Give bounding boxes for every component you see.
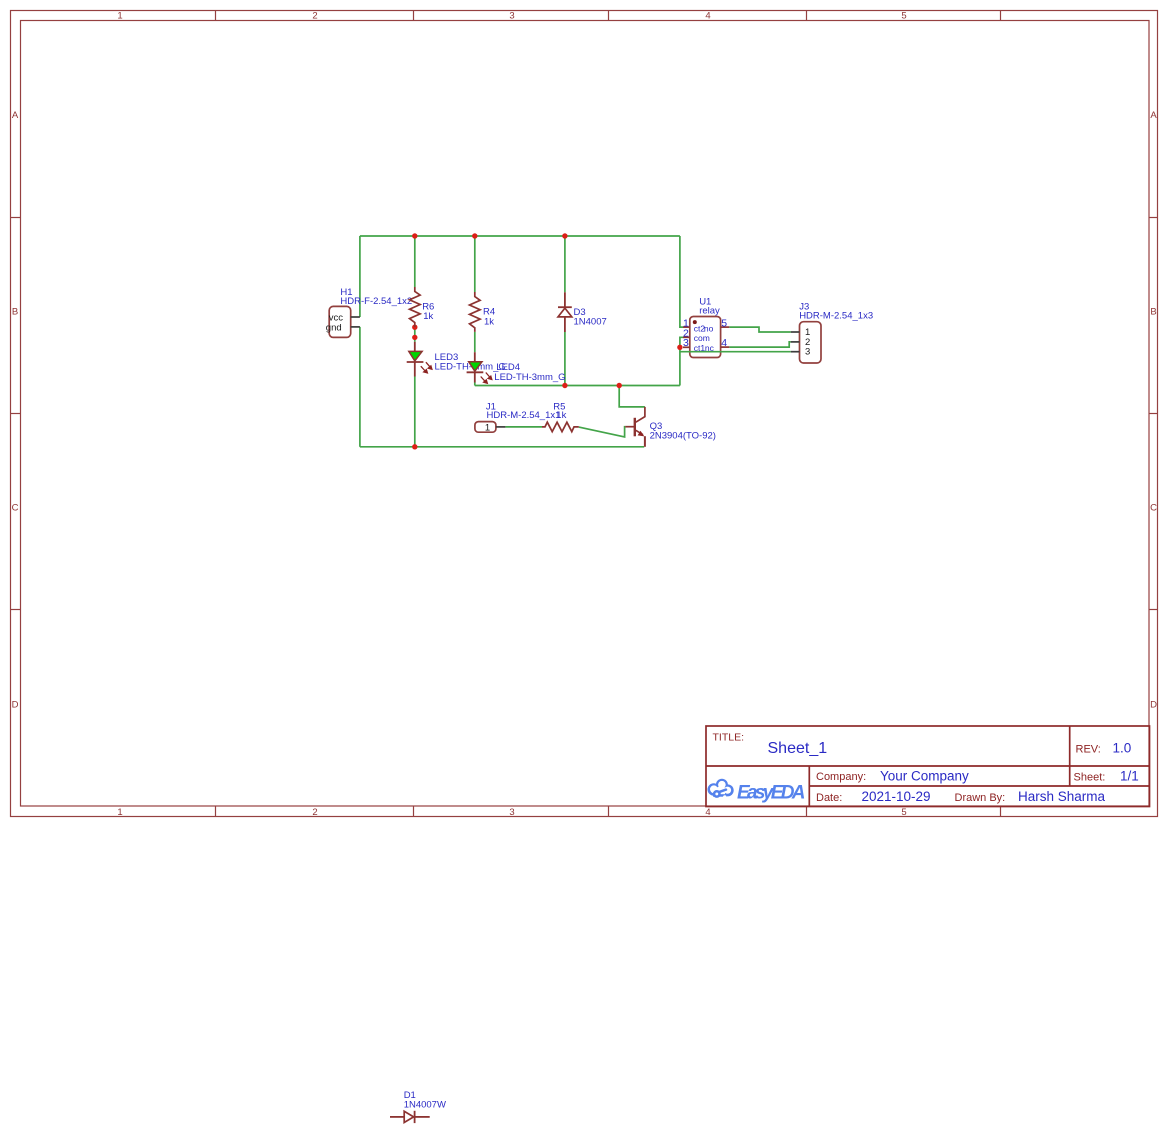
U1 polarity dot	[693, 320, 697, 324]
frame column tick bottom 4	[806, 807, 808, 817]
svg-text:com: com	[694, 333, 710, 343]
junction dots	[412, 233, 683, 449]
wire LED3 bottom	[414, 377, 416, 447]
svg-text:Harsh Sharma: Harsh Sharma	[1018, 789, 1106, 804]
frame column tick top 5	[1000, 11, 1002, 21]
svg-text:1: 1	[485, 422, 490, 433]
LED LED3	[407, 342, 506, 377]
svg-text:B: B	[1150, 307, 1156, 318]
resistor R6	[410, 287, 435, 327]
LED LED4	[467, 352, 566, 383]
svg-text:HDR-M-2.54_1x3: HDR-M-2.54_1x3	[799, 310, 873, 321]
svg-text:C: C	[1150, 503, 1157, 514]
U1 pin numbers	[683, 318, 727, 350]
wire left rail upper (vcc)	[359, 236, 361, 317]
svg-text:2021-10-29: 2021-10-29	[862, 789, 931, 804]
svg-text:LED-TH-3mm_G: LED-TH-3mm_G	[494, 372, 565, 383]
frame row tick right CD	[1149, 609, 1158, 611]
junction top rail R4	[472, 233, 477, 238]
svg-text:no: no	[704, 323, 714, 333]
svg-text:Sheet_1: Sheet_1	[768, 740, 828, 757]
sheet frame	[11, 11, 1159, 817]
svg-text:Company:: Company:	[816, 771, 866, 783]
wire U1 pin5 to J3 pin1	[729, 327, 791, 332]
svg-text:A: A	[12, 110, 19, 121]
frame column tick top 1	[215, 11, 217, 21]
svg-text:Sheet:: Sheet:	[1074, 772, 1106, 784]
wire mid rail	[475, 385, 680, 387]
svg-text:5: 5	[721, 318, 727, 330]
resistor R4	[470, 292, 496, 332]
svg-text:1N4007: 1N4007	[574, 317, 607, 328]
wire nc net to J3 pin3 (drawn over U1 box)	[680, 351, 791, 353]
svg-text:1: 1	[117, 807, 122, 818]
resistor R5	[542, 402, 579, 432]
svg-text:5: 5	[901, 11, 906, 22]
wire J1 to R5	[505, 426, 542, 428]
transistor Q3	[625, 407, 716, 447]
svg-text:Date:: Date:	[816, 792, 842, 804]
diode D1 (off-sheet)	[390, 1090, 446, 1123]
frame outer border	[11, 11, 1158, 817]
svg-text:3: 3	[805, 347, 810, 358]
frame column tick top 4	[806, 11, 808, 21]
frame column tick top 2	[413, 11, 415, 21]
wire D3 bottom	[564, 332, 566, 386]
header H1	[326, 287, 412, 338]
svg-text:1N4007W: 1N4007W	[404, 1099, 446, 1110]
svg-text:1k: 1k	[484, 316, 494, 327]
junction R6 bottom lower	[412, 335, 417, 340]
wire R5 to Q3 base	[579, 427, 626, 437]
U1 pin names	[694, 323, 715, 353]
frame row tick left AB	[11, 217, 21, 219]
svg-text:EasyEDA: EasyEDA	[737, 782, 806, 803]
title block	[706, 726, 1150, 807]
svg-text:1k: 1k	[556, 410, 566, 421]
svg-text:relay: relay	[699, 306, 720, 317]
svg-text:D: D	[12, 700, 19, 711]
svg-text:HDR-F-2.54_1x2: HDR-F-2.54_1x2	[340, 296, 412, 307]
svg-text:1/1: 1/1	[1120, 769, 1139, 784]
svg-text:5: 5	[901, 807, 906, 818]
svg-text:REV:: REV:	[1076, 744, 1101, 756]
frame row tick right AB	[1149, 217, 1158, 219]
svg-text:1: 1	[117, 11, 122, 22]
svg-text:4: 4	[721, 337, 727, 349]
svg-text:2: 2	[312, 11, 317, 22]
wire right rail lower	[680, 337, 683, 385]
wire R6 to LED3	[414, 327, 416, 342]
junction mid rail D3	[562, 383, 567, 388]
wire R6 top	[414, 236, 416, 287]
svg-text:2N3904(TO-92): 2N3904(TO-92)	[650, 431, 716, 442]
U1 pin stubs	[683, 327, 729, 347]
header J3	[791, 301, 873, 363]
wire top rail	[360, 235, 680, 237]
svg-text:4: 4	[705, 11, 710, 22]
svg-text:Drawn By:: Drawn By:	[955, 792, 1006, 804]
svg-text:C: C	[12, 503, 19, 514]
svg-text:1k: 1k	[423, 311, 433, 322]
svg-text:3: 3	[509, 807, 514, 818]
junction bottom rail LED3	[412, 444, 417, 449]
wire R4 to LED4	[474, 332, 476, 352]
junction mid rail Q3	[617, 383, 622, 388]
wire right rail upper	[680, 236, 683, 327]
junction R6 bottom upper	[412, 325, 417, 330]
svg-text:HDR-M-2.54_1x1: HDR-M-2.54_1x1	[487, 410, 561, 421]
relay U1	[683, 296, 729, 357]
header J1	[475, 402, 561, 434]
wire Q3 collector	[619, 386, 645, 407]
svg-text:2: 2	[312, 807, 317, 818]
diode D3	[558, 292, 607, 332]
frame column tick bottom 3	[608, 807, 610, 817]
frame column tick bottom 2	[413, 807, 415, 817]
wire U1 pin4 to J3 pin2	[729, 342, 791, 347]
wire D3 top	[564, 236, 566, 292]
frame column tick bottom 5	[1000, 807, 1002, 817]
wire R4 top	[474, 236, 476, 292]
svg-text:1.0: 1.0	[1113, 741, 1132, 756]
junction top rail D3	[562, 233, 567, 238]
svg-text:gnd: gnd	[326, 323, 342, 334]
frame row tick right BC	[1149, 413, 1158, 415]
svg-text:3: 3	[509, 11, 514, 22]
wire LED4 bottom	[474, 383, 476, 386]
frame row tick left CD	[11, 609, 21, 611]
svg-text:D: D	[1150, 700, 1157, 711]
junction U1 pin3	[677, 345, 682, 350]
svg-text:B: B	[12, 307, 18, 318]
wire left rail lower (gnd)	[359, 327, 361, 447]
frame column tick bottom 1	[215, 807, 217, 817]
svg-text:A: A	[1150, 110, 1157, 121]
svg-text:4: 4	[705, 807, 710, 818]
svg-text:3: 3	[683, 337, 689, 349]
frame inner border	[21, 21, 1150, 807]
frame column tick top 3	[608, 11, 610, 21]
frame row tick left BC	[11, 413, 21, 415]
svg-text:TITLE:: TITLE:	[713, 732, 745, 744]
junction top rail R6	[412, 233, 417, 238]
svg-text:Your Company: Your Company	[880, 769, 969, 784]
wire bottom rail	[360, 446, 644, 448]
EasyEDA logo	[708, 779, 806, 804]
